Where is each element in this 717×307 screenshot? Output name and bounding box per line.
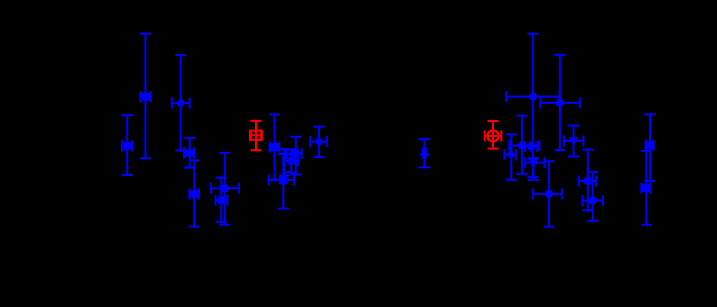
data point P2 (left panel) bbox=[172, 55, 190, 151]
data point PA (left panel) bbox=[269, 114, 280, 179]
data point RX (right panel, small cluster member) bbox=[525, 141, 538, 152]
data point PF (left panel, bar hidden in cluster) bbox=[279, 148, 291, 176]
data point R9 (right panel) bbox=[583, 172, 603, 221]
data point R4 (right panel) bbox=[564, 126, 583, 157]
data point R3 (right panel) bbox=[509, 116, 539, 174]
data point R1 (right panel) bbox=[506, 34, 559, 177]
data point Q0 (right panel) bbox=[418, 139, 430, 167]
data point R6 (right panel) bbox=[525, 157, 544, 180]
data point R8 (right panel) bbox=[533, 161, 562, 227]
data point M1 (right panel, far right) bbox=[645, 114, 656, 181]
data point R5 (right panel) bbox=[504, 134, 516, 179]
data point P5 (left panel) bbox=[189, 160, 200, 226]
data point P1 (left panel) bbox=[140, 34, 151, 159]
data point PE (left panel) bbox=[285, 149, 299, 172]
data point R7 (right panel) bbox=[579, 150, 596, 211]
red reference point (left panel) bbox=[250, 121, 262, 151]
data point P7 (left panel) bbox=[216, 178, 228, 222]
red reference point (right panel) bbox=[485, 121, 502, 149]
data point P4 (left panel) bbox=[184, 138, 195, 168]
data point R2 (right panel) bbox=[540, 55, 580, 150]
data point PB (left panel) bbox=[287, 137, 302, 175]
data point M2 (right panel, far right) bbox=[641, 151, 652, 225]
data point P3 (left panel) bbox=[122, 115, 133, 175]
data point PD (left panel) bbox=[269, 154, 294, 209]
data point P6 (left panel) bbox=[211, 153, 239, 225]
data point PC (left panel) bbox=[310, 127, 327, 157]
